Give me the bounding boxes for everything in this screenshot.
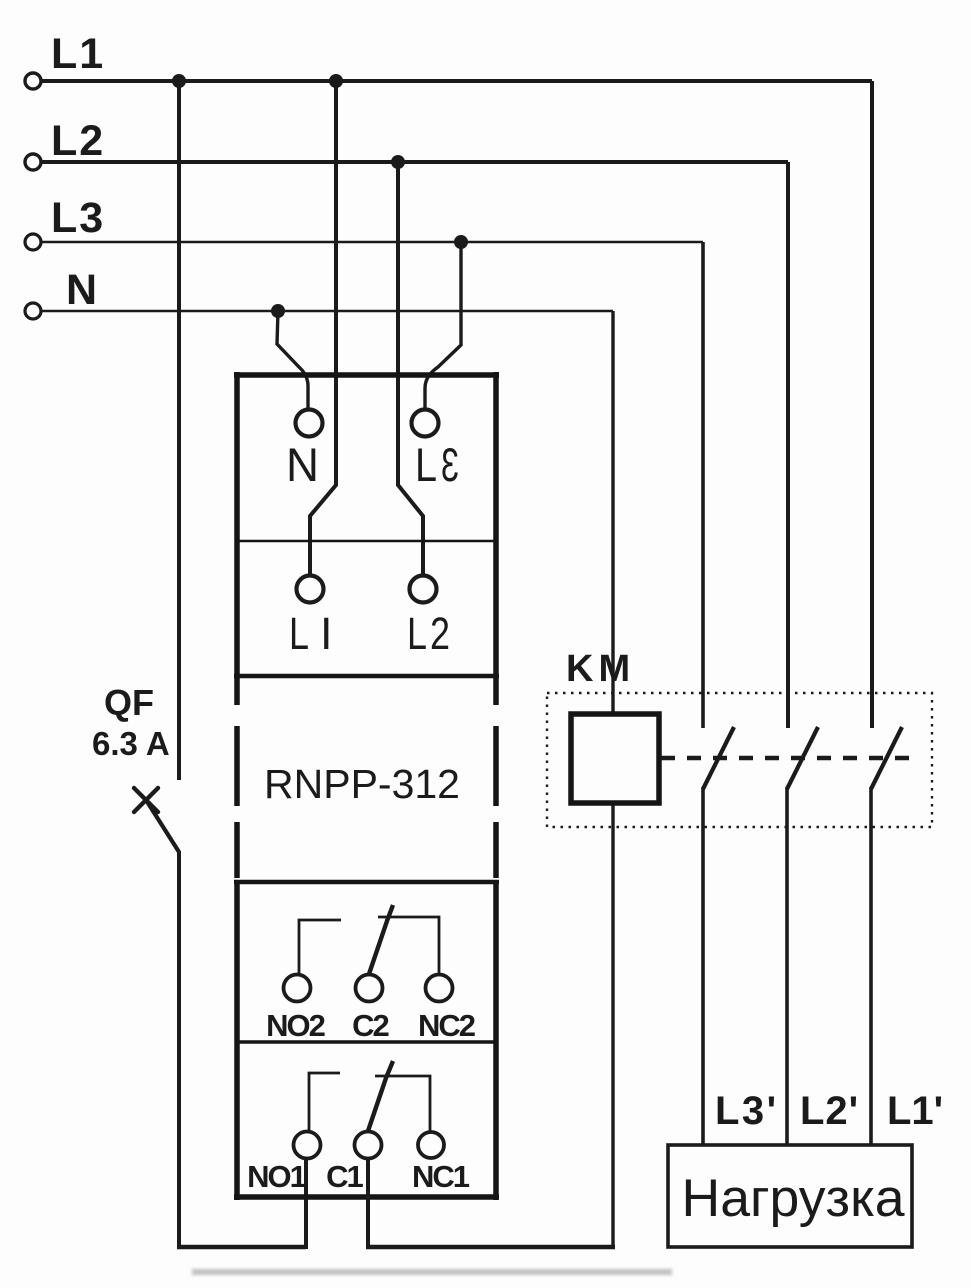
svg-text:RNPP-312: RNPP-312 xyxy=(264,761,460,807)
box right edge lower solid xyxy=(493,880,499,1200)
wire C1 drop xyxy=(366,1159,370,1249)
svg-text:L: L xyxy=(407,608,427,659)
wire L3' to load xyxy=(701,787,705,1146)
wire coil bottom vertical xyxy=(611,803,614,1249)
svg-text:NC2: NC2 xyxy=(418,1008,475,1043)
svg-text:L: L xyxy=(289,608,309,659)
load box xyxy=(668,1145,912,1247)
terminal L2 of device xyxy=(410,576,437,603)
relay contact group 1: NC1 bar xyxy=(375,1076,430,1131)
junction on L1 at device tap xyxy=(329,74,343,88)
label L3 terminal (reversed 3) xyxy=(415,438,459,491)
svg-text:C1: C1 xyxy=(326,1159,363,1194)
junction on L3 at device tap xyxy=(454,235,468,249)
terminal circle N input xyxy=(25,303,41,319)
svg-text:L2': L2' xyxy=(800,1089,859,1133)
wire L2 horizontal bus xyxy=(41,160,788,164)
terminal NC1 xyxy=(418,1132,444,1158)
svg-text:2: 2 xyxy=(430,608,450,659)
wire QF upper segment xyxy=(177,81,181,780)
contactor KM contact 2 blade (L2) xyxy=(787,727,818,789)
wire L3 tap into device (curved drop to terminal L3) xyxy=(425,242,461,410)
contactor KM dotted boundary xyxy=(547,693,932,827)
terminal circle L3 input xyxy=(25,234,41,250)
terminal NC2 xyxy=(426,975,453,1002)
divider between relay rows xyxy=(237,1040,496,1044)
terminal circle L2 input xyxy=(25,154,41,170)
terminal NO2 xyxy=(284,975,311,1002)
box left edge lower solid xyxy=(234,880,240,1200)
box bottom border xyxy=(234,1194,499,1200)
svg-text:C2: C2 xyxy=(352,1008,388,1043)
terminal N of device xyxy=(296,410,323,437)
svg-text:L2: L2 xyxy=(51,117,105,165)
contactor KM contact 1 blade (L3) xyxy=(703,727,734,789)
wire L2 phase down-run xyxy=(786,162,790,728)
svg-text:N: N xyxy=(286,438,319,491)
breaker QF cross mark xyxy=(134,788,158,812)
wire L3 phase down-run xyxy=(701,242,705,728)
svg-text:NO2: NO2 xyxy=(266,1008,325,1043)
wire L2' to load xyxy=(785,787,789,1146)
wire C1 to coil bottom horizontal xyxy=(366,1245,615,1249)
bottom border of L1/L2 row xyxy=(234,674,499,679)
svg-text:3: 3 xyxy=(441,438,459,491)
terminal NO1 xyxy=(294,1132,321,1159)
box top border xyxy=(234,372,499,378)
svg-text:NC1: NC1 xyxy=(412,1159,470,1194)
junction on L1 at QF tap xyxy=(172,74,186,88)
wire L1 horizontal bus xyxy=(41,79,872,83)
wire NO1 drop xyxy=(304,1159,308,1249)
terminal C1 xyxy=(355,1132,382,1159)
box right edge upper solid xyxy=(493,372,499,705)
svg-text:N: N xyxy=(66,266,97,314)
svg-text:L3': L3' xyxy=(715,1089,779,1133)
terminal circle L1 input xyxy=(25,73,41,89)
relay contact group 2: C2 blade xyxy=(369,905,393,974)
wire QF lower segment xyxy=(177,851,181,1249)
svg-text:I: I xyxy=(320,608,333,659)
wire L1 phase down-run xyxy=(870,81,874,728)
top border of relay contact rows xyxy=(234,880,499,885)
box right edge dashed middle xyxy=(493,726,499,806)
junction on N at device tap xyxy=(271,304,285,318)
box left edge dashed middle xyxy=(234,726,240,806)
relay RNPP-312 enclosure (solid top part) xyxy=(234,372,499,1200)
relay contact group 2: NO2 hook xyxy=(299,920,341,974)
wire N tap into device (curved drop to terminal N) xyxy=(277,311,308,410)
terminal L1 of device xyxy=(297,576,324,603)
svg-text:L: L xyxy=(415,438,437,491)
box left edge upper solid xyxy=(234,372,240,705)
terminal C2 xyxy=(356,975,383,1002)
wire L1' to load xyxy=(869,787,873,1146)
wire QF to NO1 bottom horizontal xyxy=(177,1245,306,1249)
junction on L2 at device tap xyxy=(391,155,405,169)
svg-text:L3: L3 xyxy=(51,194,105,242)
wire N to coil top vertical xyxy=(611,311,614,716)
relay contact group 2: NC2 bar xyxy=(378,917,439,974)
svg-text:L1': L1' xyxy=(887,1089,943,1133)
svg-text:NO1: NO1 xyxy=(247,1159,307,1194)
wire L2 tap into device (vertical + jog to terminal L2) xyxy=(398,162,423,576)
terminal L3 of device xyxy=(412,410,439,437)
contactor KM mechanical link (dashed) xyxy=(661,756,911,761)
wire L3 horizontal bus xyxy=(41,241,703,244)
divider between N/L3 and L1/L2 rows xyxy=(237,540,496,543)
scan artifact grey smudge at bottom xyxy=(192,1269,672,1275)
breaker QF blade xyxy=(146,800,179,852)
wire L1 tap into device (vertical + jog to terminal L1) xyxy=(310,81,336,576)
svg-text:QF: QF xyxy=(104,682,154,723)
svg-text:Нагрузка: Нагрузка xyxy=(682,1169,906,1228)
relay contact group 1: C1 blade xyxy=(368,1061,393,1131)
wire N horizontal bus xyxy=(41,310,613,313)
svg-text:KM: KM xyxy=(566,648,635,690)
svg-text:6.3 A: 6.3 A xyxy=(92,725,170,762)
relay contact group 1: NO1 hook xyxy=(309,1073,340,1131)
svg-text:L1: L1 xyxy=(51,30,105,78)
contactor KM contact 3 blade (L1) xyxy=(871,727,902,789)
label L1 terminal xyxy=(289,608,333,659)
contactor KM coil xyxy=(571,714,659,803)
